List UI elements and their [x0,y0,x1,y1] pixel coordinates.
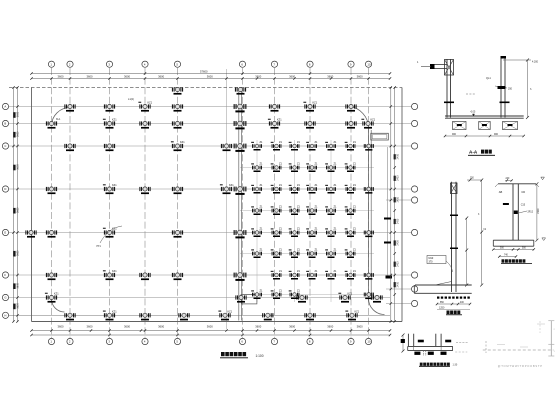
svg-text:KZ1: KZ1 [277,119,282,122]
svg-text:3600: 3600 [207,324,213,328]
svg-text:KZ1: KZ1 [348,293,353,296]
svg-text:3600: 3600 [17,111,20,117]
svg-text:D: D [4,187,6,191]
svg-text:2400: 2400 [397,175,400,181]
svg-text:CD: CD [521,190,525,194]
svg-text:3600: 3600 [289,324,295,328]
svg-text:C15: C15 [521,204,526,207]
svg-text:C: C [4,144,6,148]
svg-text:2400: 2400 [397,153,400,159]
svg-text:3600: 3600 [207,74,213,78]
svg-text:F: F [4,273,6,277]
svg-text:3600: 3600 [58,324,64,328]
svg-text:3600: 3600 [87,324,93,328]
svg-text:B: B [4,122,6,126]
svg-text:57600: 57600 [200,69,208,73]
svg-text:@ T O M T W W I T R P O O B S: @ T O M T W W I T R P O O B S T P [498,364,542,368]
svg-text:YP1: YP1 [96,245,101,248]
svg-text:KZ1: KZ1 [112,184,117,187]
svg-text:KZ1: KZ1 [228,310,233,313]
svg-text:4.200: 4.200 [532,61,539,64]
svg-text:2400: 2400 [397,196,400,202]
svg-text:3600: 3600 [87,74,93,78]
svg-text:L1(2): L1(2) [128,98,134,101]
svg-text:M10: M10 [429,257,434,260]
svg-text:KZ1: KZ1 [313,102,318,105]
svg-text:3600: 3600 [17,250,20,256]
svg-text:KZ1: KZ1 [180,141,185,144]
svg-text:900: 900 [452,133,457,136]
svg-text:3600: 3600 [17,131,20,137]
svg-text:2400: 2400 [397,218,400,224]
svg-text:KZ1: KZ1 [54,293,59,296]
svg-text:2R12: 2R12 [528,212,534,214]
svg-text:3600: 3600 [17,164,20,170]
svg-text:-0.05: -0.05 [470,112,476,114]
svg-text:1250: 1250 [439,306,445,309]
svg-text:G: G [4,296,6,300]
svg-text:3600: 3600 [255,324,261,328]
svg-text:3600: 3600 [17,207,20,213]
svg-text:2400: 2400 [397,261,400,267]
svg-text:1:30: 1:30 [453,363,458,366]
svg-text:KZ1: KZ1 [148,102,153,105]
svg-text:E: E [4,231,6,235]
svg-text:3600: 3600 [158,74,164,78]
svg-text:250: 250 [508,88,513,91]
svg-text:QL1: QL1 [486,77,491,80]
svg-text:900: 900 [494,133,499,136]
svg-text:1:100: 1:100 [256,354,264,358]
svg-text:3600: 3600 [124,74,130,78]
svg-text:KZ1: KZ1 [112,119,117,122]
svg-text:KZ1: KZ1 [371,119,376,122]
svg-text:3600: 3600 [158,324,164,328]
svg-text:A-A: A-A [469,150,478,155]
svg-text:370: 370 [429,261,434,264]
svg-text:KZ1: KZ1 [112,270,117,273]
svg-text:KZ1: KZ1 [355,310,360,313]
svg-text:1500: 1500 [537,208,540,214]
svg-text:3600: 3600 [17,303,20,309]
svg-text:AB: AB [499,190,503,194]
svg-text:10: 10 [367,62,371,66]
svg-text:10: 10 [367,340,371,344]
svg-text:2400: 2400 [397,240,400,246]
svg-text:KL1: KL1 [56,118,61,121]
svg-text:3600: 3600 [255,74,261,78]
svg-text:H: H [4,314,6,318]
svg-text:KZ1: KZ1 [229,184,234,187]
svg-text:3600: 3600 [58,74,64,78]
svg-text:3600: 3600 [327,74,333,78]
svg-text:KZ1: KZ1 [112,310,117,313]
svg-text:3600: 3600 [289,74,295,78]
svg-text:3600: 3600 [327,324,333,328]
svg-text:3600: 3600 [357,74,363,78]
svg-text:2400: 2400 [397,281,400,287]
svg-text:3600: 3600 [124,324,130,328]
svg-text:3600: 3600 [17,282,20,288]
svg-text:A: A [4,105,6,109]
svg-text:3600: 3600 [357,324,363,328]
